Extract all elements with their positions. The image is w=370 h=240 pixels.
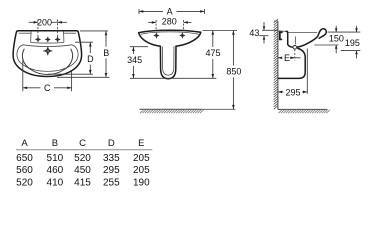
svg-text:415: 415 (74, 177, 91, 188)
dim 475 top tick (203, 30, 238, 32)
deck recess right vertical (62, 31, 65, 42)
dim 150 arrows (335, 26, 337, 32)
svg-text:205: 205 (133, 165, 150, 176)
svg-text:190: 190 (133, 177, 150, 188)
svg-text:150: 150 (329, 34, 344, 44)
dim A line (139, 10, 163, 12)
basin underside right (176, 32, 201, 46)
dim B top extension (80, 30, 108, 32)
dim 280 left arrow (148, 21, 156, 23)
svg-text:43: 43 (249, 28, 259, 38)
basin bowl bottom and front face (288, 37, 318, 48)
svg-text:B: B (52, 138, 58, 149)
floor right view (278, 109, 330, 113)
svg-text:C: C (44, 83, 51, 93)
dim 295 extension line (306, 49, 308, 94)
fixing hole cross right (180, 33, 185, 38)
svg-text:460: 460 (47, 165, 64, 176)
deck front edge (31, 41, 64, 44)
bowl opening oval (17, 45, 78, 72)
dim 195 bottom tick (341, 50, 361, 52)
svg-text:A: A (167, 7, 173, 17)
svg-text:E: E (284, 53, 290, 63)
wall hatch (274, 19, 278, 109)
svg-text:335: 335 (103, 153, 120, 164)
svg-text:295: 295 (103, 165, 120, 176)
drain hole circle (293, 46, 297, 50)
svg-text:205: 205 (133, 153, 150, 164)
svg-text:E: E (138, 138, 144, 149)
dim 295 line (278, 91, 284, 93)
bowl floor arc (22, 49, 72, 75)
svg-text:850: 850 (226, 67, 241, 77)
basin inner rim top line (289, 32, 318, 34)
dim E line (278, 57, 282, 59)
svg-text:450: 450 (74, 165, 91, 176)
dim 200 dashed extension left (37, 20, 39, 38)
waste pipe (278, 48, 305, 78)
dim 200 left arrow (29, 21, 38, 23)
dim C right extension (71, 72, 73, 92)
drain faint centerline (295, 37, 297, 45)
rim underside shading line (141, 32, 199, 34)
svg-text:410: 410 (47, 177, 64, 188)
svg-text:255: 255 (103, 177, 120, 188)
dim 345 top tick (130, 46, 148, 48)
dim B bottom extension (57, 76, 110, 78)
svg-text:520: 520 (74, 153, 91, 164)
faucet hole cross left (35, 37, 40, 42)
dim 43 bottom tick (259, 35, 268, 37)
dim D bottom extension (48, 73, 93, 75)
basin profile top rim (139, 30, 201, 33)
dim B line (105, 31, 107, 47)
semipedestal inner (162, 46, 174, 75)
wall bracket (279, 31, 283, 41)
basin outer silhouette (13, 31, 82, 77)
dim 195 arrows (356, 26, 358, 32)
drain symbol (43, 46, 52, 55)
basin front rim curl (318, 29, 327, 39)
rim inner edge left (19, 32, 31, 34)
semipedestal outer (160, 46, 176, 78)
svg-text:520: 520 (16, 177, 33, 188)
svg-text:D: D (108, 138, 115, 149)
dim 43 arrows (263, 22, 265, 30)
rim inner edge right (64, 32, 76, 34)
faucet hole cross right (55, 37, 60, 42)
dim D top tick (75, 41, 93, 43)
dim 280 dashed extensions (155, 20, 157, 31)
drain dashed centerline (294, 49, 296, 60)
dim C left extension (22, 58, 24, 91)
dim 150 bottom tick (314, 44, 338, 46)
dim 43 top tick (262, 29, 278, 31)
dim D line (89, 42, 91, 53)
svg-text:A: A (21, 138, 28, 149)
dim 475 line (212, 31, 214, 48)
svg-text:200: 200 (37, 17, 52, 27)
bottom tick under pedestal (130, 77, 216, 79)
svg-text:475: 475 (205, 48, 220, 58)
basin side profile rear wall (286, 31, 288, 44)
basin underside left (139, 33, 161, 47)
svg-text:650: 650 (16, 153, 33, 164)
svg-text:510: 510 (47, 153, 64, 164)
svg-text:560: 560 (16, 165, 33, 176)
dim C line (23, 87, 41, 89)
floor hatch middle view (140, 109, 236, 113)
svg-text:280: 280 (162, 17, 177, 27)
svg-text:B: B (103, 48, 109, 58)
dim 200 dashed extension right (57, 20, 59, 38)
rim connection to wall (278, 30, 287, 32)
fixing hole cross left (154, 33, 159, 38)
svg-text:295: 295 (285, 88, 300, 98)
dim 150 top tick (328, 31, 361, 33)
dim 345 line (132, 47, 134, 54)
svg-text:D: D (87, 54, 94, 64)
table header rule (16, 149, 152, 151)
svg-text:C: C (79, 138, 86, 149)
dim 850 line (232, 31, 234, 66)
dim 280 right arrow (184, 21, 192, 23)
svg-text:195: 195 (345, 38, 360, 48)
faucet hole cross middle (45, 37, 50, 42)
dim 200 right arrow (58, 21, 67, 23)
deck recess left vertical (30, 31, 33, 42)
svg-text:345: 345 (127, 55, 142, 65)
